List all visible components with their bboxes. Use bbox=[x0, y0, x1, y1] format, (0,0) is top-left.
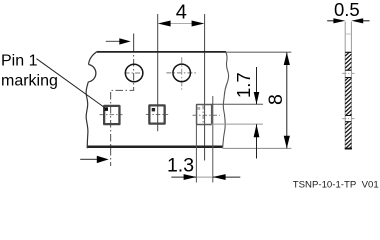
wire centerline L-path sprocket hole 1 to pocket 1 bbox=[111, 51, 134, 166]
node crosshair circle 2 bbox=[166, 72, 197, 74]
node crosshair circle 2 vertical bbox=[181, 57, 183, 90]
pin 1 mark in P2 bbox=[152, 108, 155, 111]
sprocket hole circle 2 bbox=[173, 64, 191, 82]
side view hatch block 2 bbox=[345, 78, 351, 116]
left break line lower segment bbox=[86, 82, 88, 148]
svg-text:1.3: 1.3 bbox=[167, 155, 194, 177]
right break line bbox=[223, 52, 229, 148]
side view hatch block 3 bbox=[345, 122, 352, 149]
tape top edge bbox=[97, 51, 226, 53]
wire centerline sprocket hole 1 upper solid segment bbox=[133, 34, 135, 52]
feed arrow bottom bbox=[80, 158, 97, 160]
left break line bbox=[89, 51, 98, 64]
sprocket hole circle 1 bbox=[125, 64, 143, 82]
feed arrow top bbox=[106, 40, 120, 42]
svg-text:1.7: 1.7 bbox=[233, 72, 254, 98]
side view hatch block 1 bbox=[345, 52, 351, 70]
pin 1 mark in P1 bbox=[104, 107, 108, 111]
sprocket hole 0 partial at break bbox=[88, 65, 96, 82]
svg-text:Pin 1: Pin 1 bbox=[1, 52, 38, 69]
svg-text:marking: marking bbox=[1, 73, 58, 90]
side view extension lines + dimension 0.5 bbox=[327, 20, 334, 22]
dimension 1.7 (right, rotated) bbox=[211, 103, 263, 105]
pocket P2 bbox=[149, 105, 164, 123]
node crosshair circle 1 horizontal bbox=[125, 72, 144, 74]
node pocket 3 vertical centerline bbox=[202, 106, 204, 124]
svg-text:8: 8 bbox=[265, 94, 287, 105]
pin 1 mark in P3 bbox=[197, 107, 200, 110]
svg-text:TSNP-10-1-TP: TSNP-10-1-TP bbox=[293, 179, 356, 190]
svg-text:V01: V01 bbox=[362, 179, 379, 190]
svg-text:4: 4 bbox=[176, 1, 187, 23]
leader line Pin 1 marking bbox=[37, 59, 104, 107]
side view tape strip outline bbox=[344, 22, 346, 150]
dimension 1.3 (bottom) bbox=[195, 124, 197, 182]
node pocket 1 horizontal centerline bbox=[100, 114, 123, 116]
pocket P1 bbox=[104, 106, 119, 124]
wire extension line pocket 3 center (dim 4) bbox=[204, 14, 206, 161]
dimension 4 (top) bbox=[170, 23, 193, 25]
tape bottom edge bbox=[87, 146, 223, 149]
dimension 8 (right, rotated) bbox=[286, 52, 288, 148]
side view center marks bbox=[342, 72, 354, 74]
node pocket 2 horizontal centerline bbox=[146, 114, 168, 116]
node pocket 3 horizontal centerline bbox=[193, 114, 220, 116]
wire extension line pocket 2 center (dim 4) bbox=[157, 14, 159, 131]
pocket P3 (beyond break, lighter) bbox=[197, 104, 212, 124]
svg-text:0.5: 0.5 bbox=[334, 0, 360, 20]
